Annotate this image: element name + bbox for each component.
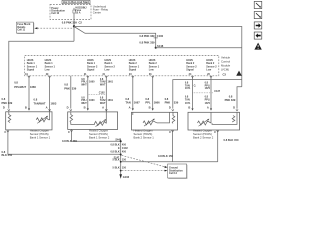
svg-text:Heated Oxygen: Heated Oxygen <box>89 129 109 133</box>
svg-text:Bank 2 Sensor 2: Bank 2 Sensor 2 <box>193 136 214 140</box>
ground G103 arrow <box>119 174 122 179</box>
label: 0.8 PNK 339 (sensor1) <box>2 97 13 105</box>
B2S2 heater element <box>198 119 212 127</box>
svg-text:0.8 PNK 339: 0.8 PNK 339 <box>62 21 78 25</box>
fuse F: HO2S/INJ Fuse 15 A <box>73 6 87 19</box>
underhood fuse-relay center dashed box <box>50 5 91 20</box>
toolbar icon: resize diagonal 2 <box>254 12 262 19</box>
svg-text:C: C <box>169 130 171 134</box>
svg-text:0.8 BLK 450: 0.8 BLK 450 <box>62 139 78 143</box>
svg-text:PNK: PNK <box>64 87 70 91</box>
B2S1 sensing element <box>172 112 175 123</box>
VCM U1 dashed box <box>25 56 219 76</box>
wire: sensor1 ground <box>8 130 121 154</box>
label: 0.8 BLK 450 (sensor1) <box>2 150 13 157</box>
label: 0.8 TAN/WHT 1653 <box>34 97 57 105</box>
label: 0.8 PNK 339 C2 below fuse box <box>62 21 83 25</box>
label: 0.8 PNK 339 C100 <box>139 34 163 38</box>
label rows on ground bus <box>111 144 129 154</box>
caption: Heated Oxygen Sensor (HO2S) Bank 2 Sensor 2 <box>193 129 214 140</box>
B1S2 heater element <box>95 119 107 127</box>
label: 0.8 TAN 1667 <box>125 97 140 105</box>
toolbar icon: warning triangle <box>254 43 261 50</box>
toolbar icon: arrow right <box>254 22 262 29</box>
VCM pin label group 6: HO2S Bank 2 Sensor 1 Low <box>149 59 160 72</box>
wire: S148 branch to right vertical <box>156 47 242 49</box>
svg-text:D: D <box>3 106 5 110</box>
label: 0.8 PNK 339 (sensor3) <box>165 97 179 105</box>
svg-text:1667: 1667 <box>134 101 140 105</box>
svg-text:PPL: PPL <box>145 101 151 105</box>
svg-text:15 A: 15 A <box>75 12 80 15</box>
B2S2 sensing element <box>232 116 235 123</box>
svg-text:0.8: 0.8 <box>34 97 38 101</box>
VCM pin label group 7: HO2S Bank 2 Sensor 2 Signal <box>186 59 197 72</box>
svg-text:WHT: WHT <box>81 84 87 87</box>
B1S1 sensing element <box>8 112 11 123</box>
svg-text:PNK: PNK <box>165 101 171 105</box>
wire: branch to sensor 3 <box>173 80 242 109</box>
labels col 31: 0.8 TAN/WHT 1661 <box>100 78 114 105</box>
dashed reference arrow A to ground distribution <box>122 155 168 168</box>
svg-text:Bank 1 Sensor 1: Bank 1 Sensor 1 <box>30 135 51 139</box>
svg-text:C2: C2 <box>79 21 83 25</box>
svg-text:1666: 1666 <box>30 85 36 89</box>
svg-text:D: D <box>169 106 171 110</box>
caption: Heated Oxygen Sensor (HO2S) Bank 1 Sensor 2 <box>89 129 110 140</box>
svg-text:339: 339 <box>72 87 77 91</box>
VCM pin label group 3: HO2S Bank 1 Sensor 2 Signal <box>87 59 98 72</box>
svg-text:PNK 339: PNK 339 <box>2 101 13 105</box>
splice S448 <box>120 140 122 142</box>
svg-text:S448: S448 <box>115 138 121 141</box>
svg-text:A: A <box>129 106 131 110</box>
svg-text:Cell 10: Cell 10 <box>51 12 60 15</box>
svg-text:Cell 14: Cell 14 <box>169 172 178 175</box>
in-line connector C102 dotted <box>88 94 107 96</box>
toolbar icon: resize diagonal 1 <box>254 1 262 8</box>
toolbar icon: arrow left <box>254 32 262 39</box>
svg-text:C100: C100 <box>157 34 164 38</box>
svg-text:TAN/WHT: TAN/WHT <box>34 102 46 106</box>
svg-text:0.8 BLK 150: 0.8 BLK 150 <box>224 138 240 142</box>
svg-text:1671: 1671 <box>185 102 191 105</box>
svg-text:D: D <box>67 106 69 110</box>
wire: left feed bus to sensor 1 <box>9 41 74 108</box>
svg-text:G103: G103 <box>123 175 130 179</box>
VCM pin ticks <box>28 76 212 78</box>
label: 0.8 PPL/WHT 1666 <box>14 80 36 89</box>
B2S1 internal wire from pin A <box>132 112 134 115</box>
VCM pin label group 2: HO2S Bank 1 Sensor 1 Low <box>45 59 56 72</box>
svg-text:C137: C137 <box>214 90 220 93</box>
label row: 5 BLK 150 <box>113 167 127 170</box>
svg-text:A: A <box>207 106 209 110</box>
svg-text:Sensor (HO2S): Sensor (HO2S) <box>30 132 49 136</box>
VCM pin label group 5: HO2S Bank 2 Sensor 1 Signal <box>129 59 140 72</box>
svg-text:1670: 1670 <box>205 102 211 105</box>
svg-text:Bank 1 Sensor 2: Bank 1 Sensor 2 <box>89 136 110 140</box>
svg-text:B: B <box>149 106 151 110</box>
wire: col pin24 signal B2S2 <box>192 76 194 109</box>
svg-text:150: 150 <box>122 159 127 162</box>
svg-text:339: 339 <box>174 101 179 105</box>
wire: fuse output vertical <box>73 20 75 42</box>
label: Power Distribution Cell 10 <box>51 7 65 15</box>
VCM warning triangle <box>236 71 242 76</box>
svg-text:Signal: Signal <box>186 69 194 72</box>
svg-text:450: 450 <box>122 151 127 154</box>
svg-text:Low: Low <box>149 69 154 72</box>
svg-text:0.8 PNK 339: 0.8 PNK 339 <box>139 41 155 45</box>
label row: 5 BLK 150 <box>113 159 127 162</box>
wire: diagonal branch to S148 <box>74 27 156 48</box>
junction with sensor grounds <box>120 161 122 163</box>
svg-text:Low: Low <box>45 69 50 72</box>
hot-at-all-times title box <box>62 0 90 4</box>
svg-text:D: D <box>233 106 235 110</box>
svg-text:(VCM): (VCM) <box>221 67 229 71</box>
svg-text:Heated Oxygen: Heated Oxygen <box>30 128 50 132</box>
svg-text:0.8: 0.8 <box>125 97 129 101</box>
B2S1 internal wire from pin D <box>157 112 170 123</box>
svg-text:0.8: 0.8 <box>2 97 6 101</box>
svg-text:0.8: 0.8 <box>14 80 18 84</box>
HO2S B1S2 sensor box <box>68 112 118 129</box>
svg-text:0.8 BLK: 0.8 BLK <box>111 151 120 154</box>
svg-text:Cell 11: Cell 11 <box>17 28 25 31</box>
svg-text:1666: 1666 <box>154 101 160 105</box>
B1S1 bottom pin C <box>4 130 9 134</box>
splice S148 <box>155 47 157 49</box>
svg-text:TAN: TAN <box>125 101 130 105</box>
svg-text:5 BLK: 5 BLK <box>113 167 120 170</box>
svg-text:Sensor (HO2S): Sensor (HO2S) <box>89 132 108 136</box>
svg-text:1671: 1671 <box>185 87 191 90</box>
svg-text:1670: 1670 <box>205 87 211 90</box>
svg-text:B: B <box>84 106 86 110</box>
svg-text:C: C <box>4 130 6 134</box>
B1S2 sensing element <box>70 112 73 123</box>
svg-text:Signal: Signal <box>27 69 35 72</box>
B1S1 heater element <box>36 116 48 124</box>
svg-text:C: C <box>214 130 216 134</box>
wire: sensor3 ground <box>172 130 174 162</box>
wire: col pin23 signal B2S1 <box>132 76 134 109</box>
svg-text:Signal: Signal <box>87 69 95 72</box>
labels col 21 lower <box>81 96 95 105</box>
svg-text:WHT: WHT <box>100 84 106 87</box>
wire: col pin26 low B2S2 <box>210 76 212 109</box>
B2S2 internal wire from pin A <box>210 112 212 123</box>
B2S2 internal wire from pin D <box>212 112 237 124</box>
splice node below fuse <box>73 25 75 27</box>
wire: top feed to right (sensor 4) <box>74 27 242 87</box>
label: Underhood Fuse-Relay Center <box>93 5 109 15</box>
dashed reference arrow to fuse block details <box>34 27 73 29</box>
HO2S B2S1 sensor box <box>132 112 178 130</box>
wire: col pin21 signal B1S2 <box>87 76 89 109</box>
label: 0.8 PNK 339 (sensor4) <box>225 94 236 102</box>
svg-text:C102: C102 <box>99 91 105 94</box>
label: 0.8 PNK 339 (sensor2) <box>64 82 76 90</box>
svg-text:0.8 BLK 150: 0.8 BLK 150 <box>158 154 174 158</box>
B1S2 bottom pin C <box>68 130 73 134</box>
wire: col pin31 low B1S2 <box>105 76 107 112</box>
svg-text:150: 150 <box>122 167 127 170</box>
svg-text:5 BLK: 5 BLK <box>113 159 120 162</box>
svg-text:Center: Center <box>93 11 101 15</box>
wire: col pin29 low B1S1 <box>49 76 51 112</box>
svg-text:0.8: 0.8 <box>165 97 169 101</box>
B1S2 internal wire from pin D <box>71 122 95 124</box>
dashed reference arrow B to ground distribution <box>122 170 168 172</box>
B2S1 heater element <box>143 119 157 127</box>
svg-text:0.8 PNK 339: 0.8 PNK 339 <box>139 34 155 38</box>
svg-text:Heated Oxygen: Heated Oxygen <box>134 129 154 133</box>
VCM pin label group 4: HO2S Bank 1 Sensor 2 Low <box>105 59 116 72</box>
ground distribution reference box <box>168 164 188 179</box>
in-line connector C137 dotted <box>193 92 214 94</box>
HO2S B1S1 sensor box <box>6 112 52 130</box>
caption: Heated Oxygen Sensor (HO2S) Bank 2 Sensor 1 <box>134 129 155 140</box>
svg-text:0.8: 0.8 <box>145 97 149 101</box>
caption: Heated Oxygen Sensor (HO2S) Bank 1 Sensor 1 <box>30 128 51 139</box>
svg-text:1660: 1660 <box>89 99 95 102</box>
wire: col pin33 low B2S1 <box>152 76 154 109</box>
wire: sensor2 ground <box>72 129 121 141</box>
svg-text:Signal: Signal <box>129 69 137 72</box>
VCM pin numbers row <box>25 73 210 76</box>
svg-text:C: C <box>68 130 70 134</box>
svg-text:Hot In Run And Start: Hot In Run And Start <box>63 1 89 4</box>
svg-text:0.8: 0.8 <box>229 94 233 98</box>
fuse block details reference box <box>16 22 34 34</box>
svg-text:1661: 1661 <box>108 99 114 102</box>
wire: ground bus horizontal <box>121 161 218 163</box>
terminal ticks at sensor box tops <box>8 109 238 111</box>
labels col 21 upper: 0.8 PPL/WHT 1660 <box>81 78 95 87</box>
svg-text:WHT: WHT <box>100 102 106 105</box>
svg-text:C:: C: <box>194 84 197 87</box>
svg-text:Low: Low <box>105 69 110 72</box>
label: 0.8 PNK 339 S148 <box>139 41 163 49</box>
svg-text:PNK 339: PNK 339 <box>225 98 236 102</box>
wire: sensor4 ground <box>217 130 219 162</box>
svg-text:Sensor (HO2S): Sensor (HO2S) <box>193 132 212 136</box>
wire: PNK feed sensor 2 <box>70 76 72 109</box>
svg-text:WHT: WHT <box>81 102 87 105</box>
svg-text:0.8: 0.8 <box>64 82 68 86</box>
svg-text:Bank 2 Sensor 1: Bank 2 Sensor 1 <box>134 136 155 140</box>
wire: col pin19 signal B1S1 <box>28 76 30 109</box>
svg-text:1653: 1653 <box>51 102 57 106</box>
splice S147 <box>120 154 122 156</box>
HO2S B2S2 sensor box <box>188 112 240 130</box>
labels col 24 upper: 0.8 TAN 1671 <box>185 81 196 90</box>
VCM pin label group 1: HO2S Bank 1 Sensor 1 Signal <box>27 59 38 72</box>
svg-text:A: A <box>102 106 104 110</box>
svg-text:B: B <box>25 106 27 110</box>
B2S2 bottom pin C <box>214 130 219 134</box>
wire: jog down to sensor 4 <box>237 87 242 109</box>
splice node lower <box>120 170 122 172</box>
B1S1 internal wire from pin A <box>49 112 50 120</box>
connector C100 tick <box>154 37 158 39</box>
svg-text:BLK 450: BLK 450 <box>2 153 13 157</box>
VCM pin label group 8: HO2S Bank 2 Sensor 2 Low <box>206 59 217 72</box>
svg-text:PPL/WHT: PPL/WHT <box>14 85 26 89</box>
svg-text:A: A <box>46 106 48 110</box>
B2S1 bottom pin C <box>169 130 174 134</box>
label: Vehicle Control Module (VCM) <box>221 55 231 71</box>
label: 0.8 PPL 1666 <box>145 97 160 105</box>
svg-text:Heated Oxygen: Heated Oxygen <box>193 129 213 133</box>
svg-text:1661: 1661 <box>108 81 114 84</box>
B1S2 internal wire from pin A <box>105 112 107 124</box>
ground bus vertical <box>120 141 122 174</box>
pin letters row above sensor boxes <box>3 106 235 110</box>
svg-text:B: B <box>188 106 190 110</box>
svg-text:Sensor (HO2S): Sensor (HO2S) <box>134 132 153 136</box>
svg-text:C3: C3 <box>223 73 227 77</box>
labels col 24 lower <box>185 95 191 104</box>
labels col 26: 0.8 PPL 1670 <box>205 81 211 104</box>
svg-text:1660: 1660 <box>89 81 95 84</box>
svg-text:Low: Low <box>206 69 211 72</box>
